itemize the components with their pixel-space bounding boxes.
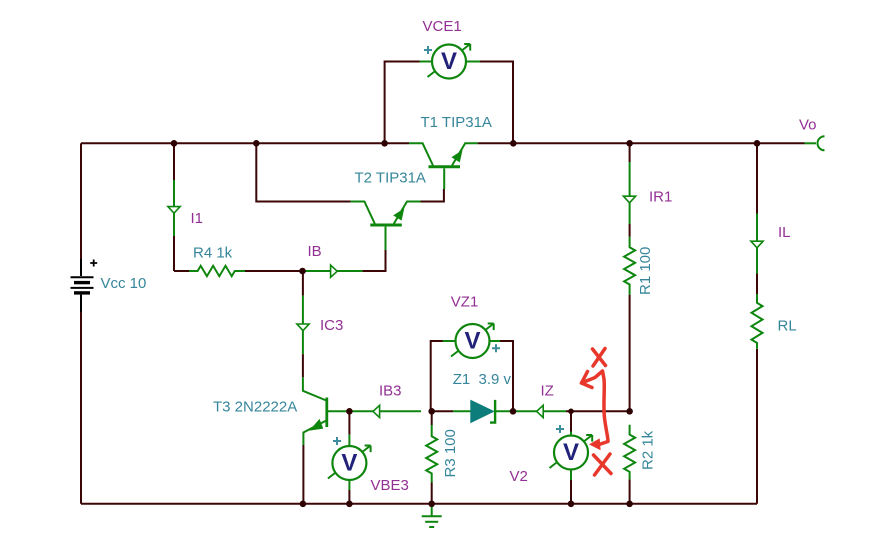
- svg-text:RL: RL: [778, 318, 797, 335]
- svg-text:R2 1k: R2 1k: [640, 430, 657, 470]
- svg-text:IB3: IB3: [379, 383, 402, 400]
- svg-text:T3 2N2222A: T3 2N2222A: [213, 399, 297, 416]
- svg-text:V2: V2: [510, 468, 528, 485]
- svg-text:T1 TIP31A: T1 TIP31A: [421, 114, 492, 131]
- svg-text:V: V: [464, 327, 480, 354]
- svg-text:IB: IB: [308, 243, 322, 260]
- svg-text:Vcc 10: Vcc 10: [101, 275, 147, 292]
- svg-text:V: V: [563, 439, 579, 466]
- svg-text:Vo: Vo: [799, 117, 817, 134]
- svg-text:V: V: [341, 449, 357, 476]
- svg-text:VCE1: VCE1: [423, 18, 462, 35]
- svg-text:VBE3: VBE3: [371, 477, 409, 494]
- svg-text:R1 100: R1 100: [637, 247, 654, 295]
- svg-text:T2 TIP31A: T2 TIP31A: [355, 170, 426, 187]
- svg-text:IZ: IZ: [541, 383, 554, 400]
- svg-text:VZ1: VZ1: [451, 294, 479, 311]
- svg-text:V: V: [441, 48, 457, 75]
- svg-text:IL: IL: [778, 224, 791, 241]
- svg-text:R4 1k: R4 1k: [193, 245, 233, 262]
- svg-text:IC3: IC3: [320, 317, 343, 334]
- svg-text:I1: I1: [191, 210, 204, 227]
- svg-text:IR1: IR1: [649, 189, 672, 206]
- svg-text:R3 100: R3 100: [442, 429, 459, 477]
- svg-text:Z1 3.9 v: Z1 3.9 v: [453, 371, 512, 388]
